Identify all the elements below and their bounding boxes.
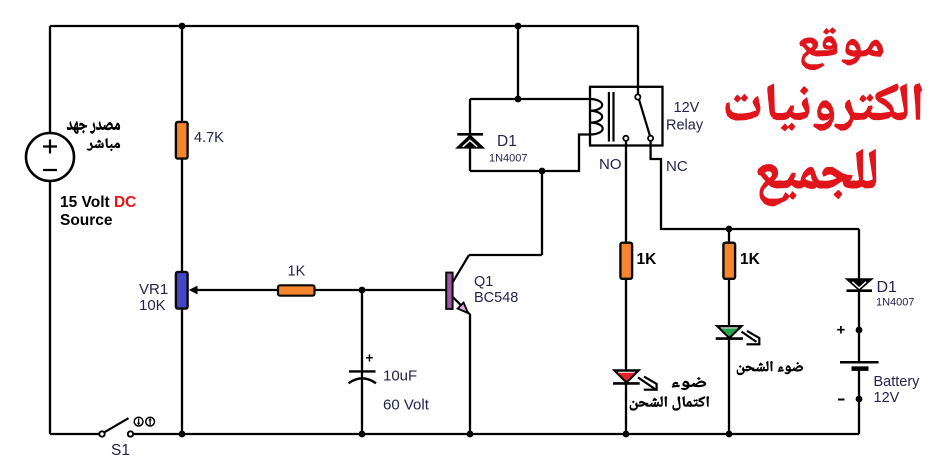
- wire: VR1 wiper to Q1 base through R 1K: [195, 289, 446, 291]
- banner: liljamee (Arabic red line 3): [758, 150, 876, 206]
- junction node 8 (470,434): [467, 431, 474, 438]
- switch S1: [99, 418, 133, 436]
- svg-text:12V: 12V: [674, 100, 700, 116]
- junction node 6 (182,434): [179, 431, 186, 438]
- wire: green LED to rail: [728, 339, 730, 435]
- wire: riser top rail to D1 loop: [517, 26, 519, 99]
- potentiometer VR1 10K: [176, 272, 198, 309]
- junction node 9 (626,434): [623, 431, 630, 438]
- svg-text:NO: NO: [599, 156, 622, 173]
- svg-text:+: +: [366, 351, 374, 366]
- svg-text:12V: 12V: [874, 390, 900, 406]
- capacitor C1 10uF (polarized): [349, 371, 377, 383]
- wire: D1 flyback top lead: [469, 99, 471, 135]
- wire: red LED to rail: [625, 383, 627, 434]
- junction node 2 (518,26): [515, 23, 522, 30]
- wire: VR1 bottom lead: [181, 309, 183, 434]
- label - (battery minus): [838, 399, 845, 401]
- svg-text:10K: 10K: [139, 297, 166, 314]
- junction node 12 (859,330): [856, 327, 863, 334]
- svg-text:1K: 1K: [637, 251, 658, 268]
- resistor 4.7K: [176, 122, 188, 159]
- wire: bottom rail main: [133, 433, 859, 435]
- svg-text:S1: S1: [111, 442, 130, 459]
- LED green emission arrows: [742, 331, 761, 345]
- junction node 4 (542,171): [539, 168, 546, 175]
- wire: 1K to red LED: [625, 279, 627, 371]
- wire: battery minus to rail corner: [858, 368, 860, 434]
- svg-text:NC: NC: [666, 158, 688, 175]
- svg-text:1K: 1K: [288, 264, 306, 280]
- wire: collector riser to D1 loop: [541, 171, 543, 255]
- label: masdar jahd mubashir (Arabic): [67, 122, 120, 151]
- junction node 10 (729,434): [726, 431, 733, 438]
- wire: relay common riser: [637, 26, 639, 95]
- voltage source V1 (15V DC): [26, 133, 74, 181]
- relay core lines: [609, 92, 614, 142]
- svg-text:1N4007: 1N4007: [489, 153, 528, 165]
- battery B1 12V: [840, 362, 879, 368]
- wire: 4.7K to VR1: [181, 159, 183, 272]
- svg-text:Source: Source: [60, 212, 113, 229]
- junction node 1 (182,26): [179, 23, 186, 30]
- wire: relay NO lead to 1K: [625, 141, 627, 244]
- label Q1 BC548: [474, 274, 518, 306]
- svg-text:D1: D1: [877, 279, 898, 296]
- label D1 1N4007 (flyback): [489, 133, 528, 165]
- junction node 7 (362,434): [359, 431, 366, 438]
- wire: left vertical from top rail to bottom rail: [49, 26, 51, 434]
- wire: Q1 collector horizontal: [469, 254, 542, 256]
- relay pole (common armature): [639, 100, 650, 137]
- wire: relay NC jog to horizontal feed: [651, 141, 859, 230]
- wire: capacitor branch: [361, 290, 363, 434]
- diode D1 flyback (points up): [457, 134, 483, 147]
- label Battery 12V: [874, 374, 921, 406]
- svg-text:4.7K: 4.7K: [194, 130, 224, 146]
- svg-text:60 Volt: 60 Volt: [383, 397, 430, 414]
- LED red (charge complete): [613, 371, 640, 384]
- junction node 5 (362,290): [359, 287, 366, 294]
- LED red emission arrows: [638, 377, 658, 391]
- resistor 1K (green LED branch): [723, 243, 735, 279]
- junction node 13 (859,399): [856, 396, 863, 403]
- diode D1 right (points down): [847, 279, 873, 290]
- wire: 1K to green LED: [728, 279, 730, 326]
- relay NO contact: [623, 136, 628, 141]
- junction node 11 (729,229): [726, 226, 733, 233]
- svg-text:BC548: BC548: [474, 290, 518, 306]
- banner: mawqi (Arabic red line 1): [800, 28, 883, 70]
- wire: D1 loop top to relay coil: [470, 98, 591, 100]
- svg-text:Battery: Battery: [874, 374, 921, 390]
- switch toggle icons: [134, 417, 154, 426]
- svg-text:VR1: VR1: [139, 281, 168, 298]
- relay NC contact: [648, 136, 653, 141]
- wire: bottom rail left of switch: [50, 433, 100, 435]
- svg-text:Q1: Q1: [474, 274, 493, 290]
- svg-text:+: +: [837, 322, 846, 339]
- label: 15 Volt DC Source: [60, 194, 136, 229]
- LED green (charging): [716, 326, 743, 338]
- label 10uF 60 Volt: [383, 368, 430, 414]
- wire: 4.7K top lead: [181, 26, 183, 122]
- svg-text:15 Volt DC: 15 Volt DC: [60, 194, 136, 211]
- wire: D1 right to battery: [858, 291, 860, 362]
- junction node 3 (518,99): [515, 96, 522, 103]
- label: daw alshahn (Arabic): [737, 361, 803, 375]
- relay coil: [590, 99, 602, 135]
- label VR1 10K: [139, 281, 168, 314]
- wire: Q1 emitter down to rail: [469, 314, 471, 434]
- svg-text:D1: D1: [497, 133, 517, 150]
- resistor 1K (red LED branch): [620, 243, 632, 279]
- label 12V Relay: [666, 100, 704, 134]
- wire: D1 loop bottom / coil return: [470, 135, 591, 172]
- svg-text:1K: 1K: [740, 251, 761, 268]
- wire: 1K green branch top lead: [728, 229, 730, 243]
- relay common contact: [635, 94, 640, 99]
- label D1 1N4007 (right): [876, 279, 915, 309]
- svg-text:Relay: Relay: [666, 118, 704, 134]
- resistor 1K horizontal: [278, 285, 315, 295]
- banner: elektroniyat (Arabic red line 2): [726, 84, 922, 131]
- wire: D1 flyback bottom lead: [469, 147, 471, 171]
- svg-text:1N4007: 1N4007: [876, 297, 915, 309]
- wire: top rail: [50, 25, 638, 27]
- label: daw iktimal alshahn (Arabic): [630, 378, 709, 411]
- svg-text:10uF: 10uF: [383, 368, 417, 385]
- wire: feed to diode D1 right: [858, 229, 860, 279]
- relay K1 box: [590, 87, 663, 146]
- transistor Q1 BC548: [446, 255, 470, 315]
